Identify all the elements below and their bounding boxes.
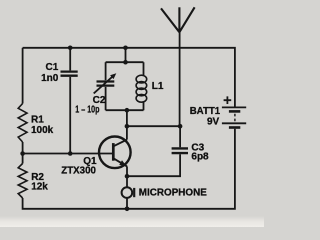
microphone bar	[133, 188, 135, 197]
junction antenna/C3	[178, 124, 183, 129]
wire tank left branch lower	[105, 87, 107, 110]
svg-text:ZTX300: ZTX300	[61, 166, 96, 177]
wire bottom rail + battery bottom + left bottom stub	[23, 129, 235, 209]
svg-text:L1: L1	[152, 81, 164, 92]
wire left rail upper segment	[22, 48, 24, 104]
battery dashed middle	[234, 114, 236, 123]
antenna	[161, 7, 195, 32]
wire collector line	[126, 110, 128, 139]
wire tank bottom	[106, 109, 144, 111]
capacitor C3	[172, 148, 188, 153]
svg-text:1 – 10p: 1 – 10p	[75, 104, 99, 115]
svg-text:1n0: 1n0	[41, 73, 59, 84]
junction C1/base wire	[68, 151, 73, 156]
C2 arrow head	[110, 73, 116, 79]
junction C1/top rail	[68, 46, 73, 51]
transistor Q1 base bar	[112, 143, 115, 161]
junction mic/bottom rail	[125, 207, 130, 212]
antenna feed wire	[179, 32, 181, 126]
battery BATT1 plate long bottom	[222, 122, 246, 124]
capacitor C1	[61, 72, 78, 76]
battery plus sign	[224, 96, 232, 104]
wire C1 branch lower lead	[69, 77, 71, 154]
svg-text:6p8: 6p8	[191, 152, 209, 163]
junction tank bottom/collector	[125, 108, 130, 113]
microphone circle	[122, 187, 133, 198]
transistor Q1 emitter stroke	[114, 158, 127, 166]
junction tank feed/top rail	[123, 46, 128, 51]
battery BATT1 plate long top	[222, 106, 246, 108]
transistor Q1 collector stroke	[114, 140, 127, 147]
inductor L1 loops	[136, 75, 147, 102]
wire tank left branch upper	[105, 62, 107, 80]
svg-text:C1: C1	[46, 62, 59, 73]
svg-text:100k: 100k	[31, 125, 54, 136]
capacitor C2 plates	[97, 82, 115, 86]
wire left rail middle segment	[22, 142, 24, 164]
wire top rail + right rail to battery	[23, 48, 235, 107]
svg-text:9V: 9V	[207, 116, 220, 127]
junction left rail/base wire	[20, 151, 25, 156]
paper background	[0, 0, 264, 227]
wire emitter vertical	[126, 166, 128, 187]
inductor L1 leads	[143, 62, 145, 110]
wire base wire	[23, 153, 113, 155]
wire C3 bottom to emitter	[127, 154, 180, 176]
junction emitter/C3 return	[125, 174, 130, 179]
capacitor C3 top lead	[179, 126, 181, 147]
wire collector to antenna/C3	[127, 125, 180, 127]
transistor Q1 circle	[99, 137, 131, 169]
junction collector/antenna wire	[125, 124, 130, 129]
resistor R2	[18, 164, 27, 199]
battery BATT1 plate short bottom	[229, 126, 240, 129]
wire C1 branch upper lead	[69, 48, 71, 71]
wire tank feed from rail	[125, 48, 127, 62]
wire mic bottom lead	[126, 198, 128, 209]
svg-text:12k: 12k	[31, 181, 48, 192]
wire tank top	[106, 61, 144, 63]
svg-text:MICROPHONE: MICROPHONE	[139, 187, 207, 198]
junction tank top	[123, 60, 128, 65]
battery BATT1 plate short top	[229, 110, 240, 113]
capacitor C2 arrow	[94, 76, 114, 94]
resistor R1	[18, 104, 27, 143]
Q1 emitter arrow head	[119, 160, 126, 166]
